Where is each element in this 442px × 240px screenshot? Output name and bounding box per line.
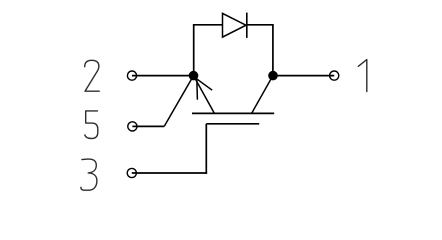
pin label 5 [85, 111, 98, 139]
wire top left to diode anode [193, 24, 223, 26]
IGBT Q1 emitter arrow barb lower [196, 79, 199, 100]
pin label 2 [85, 60, 100, 91]
junction dot emitter node [189, 71, 199, 81]
wire pin5 horizontal [132, 125, 164, 127]
pin label 3 [81, 159, 97, 190]
IGBT Q1 emitter lead [194, 76, 215, 114]
IGBT Q1 body bar [192, 112, 274, 114]
terminal pin 1 [330, 71, 339, 80]
pin label 1 [358, 60, 367, 92]
wire gate vertical lead [205, 124, 207, 174]
IGBT Q1 emitter arrow barb upper [197, 79, 213, 90]
terminal pin 2 [127, 71, 136, 80]
wire right vertical of diode loop [272, 25, 274, 76]
wire left vertical of diode loop [193, 25, 195, 76]
diode D1 cathode bar [246, 13, 248, 38]
wire collector node to pin1 [273, 75, 334, 77]
wire pin2 to emitter node [132, 75, 194, 77]
junction dot collector node [268, 71, 278, 81]
terminal pin 3 [127, 168, 136, 177]
wire diode cathode to top right [247, 24, 274, 26]
IGBT Q1 gate bar [206, 123, 259, 125]
wire pin5 diagonal to emitter node [164, 76, 193, 127]
terminal pin 5 [128, 122, 137, 131]
diode D1 triangle [223, 13, 247, 37]
wire pin3 to gate [132, 172, 207, 174]
IGBT Q1 collector lead [252, 76, 273, 114]
